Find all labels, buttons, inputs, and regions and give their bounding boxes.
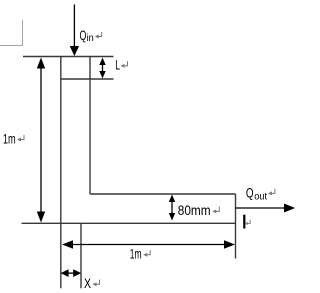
svg-text:X: X: [84, 275, 91, 291]
svg-text:80mm: 80mm: [178, 202, 211, 218]
svg-text:Q: Q: [80, 27, 87, 43]
svg-text:L: L: [115, 57, 120, 73]
svg-text:in: in: [87, 33, 94, 44]
svg-text:out: out: [254, 192, 267, 203]
svg-text:1m: 1m: [130, 246, 142, 262]
svg-text:1m: 1m: [3, 130, 16, 146]
svg-text:Q: Q: [246, 184, 254, 200]
